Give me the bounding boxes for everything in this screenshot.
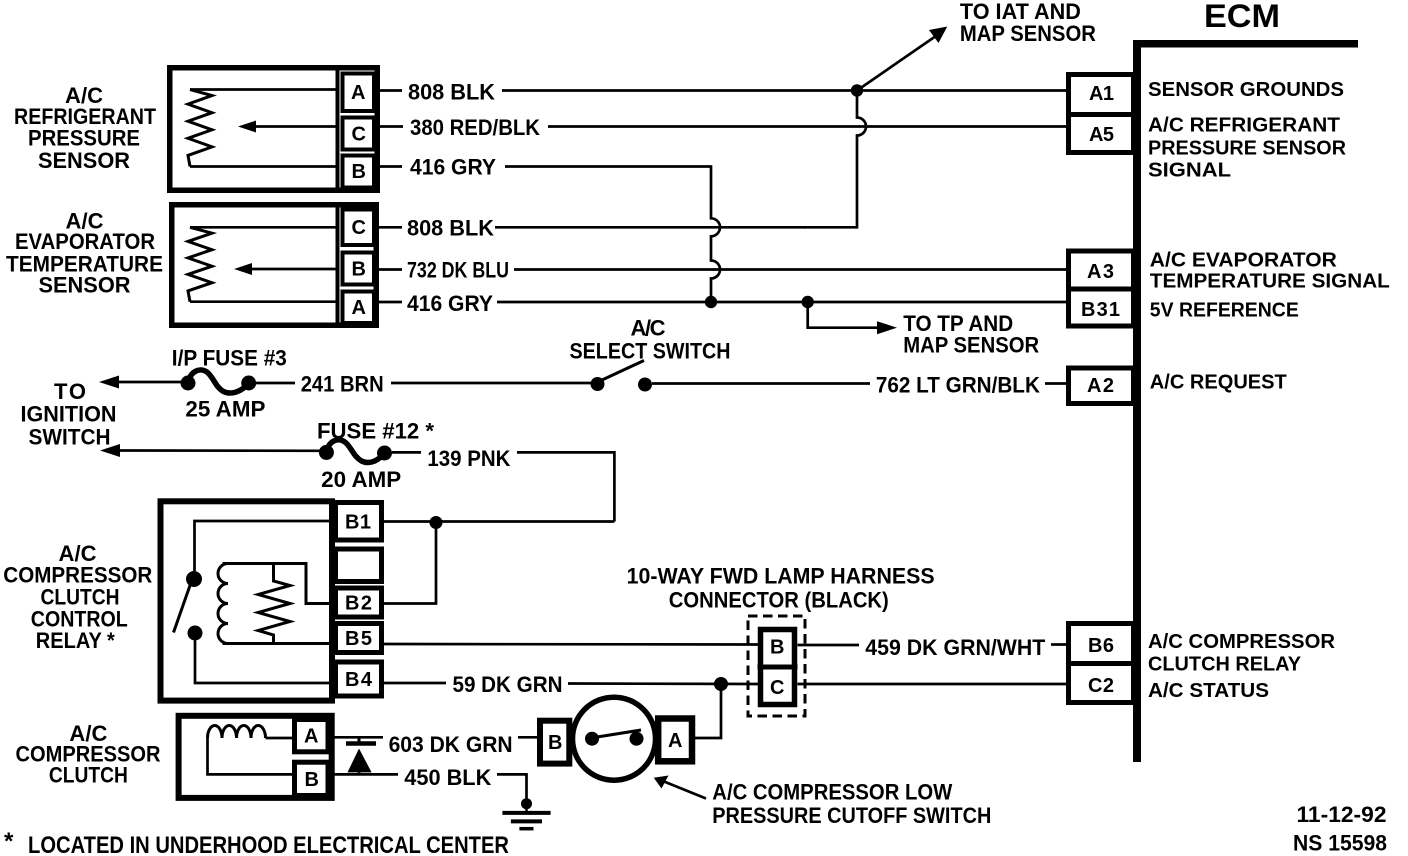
- svg-text:I/P FUSE #3: I/P FUSE #3: [172, 346, 287, 371]
- svg-text:SENSOR: SENSOR: [38, 148, 130, 173]
- ECM label A/C COMPRESSOR CLUTCH RELAY: [1148, 631, 1336, 676]
- svg-text:416 GRY: 416 GRY: [410, 155, 496, 180]
- svg-text:B: B: [770, 637, 784, 659]
- svg-text:NS 15598: NS 15598: [1293, 831, 1387, 856]
- ECM pin block A3/B31: [1066, 251, 1136, 326]
- arrow to ignition switch (139 PNK): [100, 444, 320, 457]
- wire 139 PNK to relay B1: [392, 452, 614, 521]
- pin A3: [1087, 261, 1114, 283]
- svg-text:B: B: [548, 732, 562, 754]
- wire relay B5 to 10-way B: [384, 643, 758, 646]
- A/C select switch: [591, 361, 653, 392]
- svg-text:PRESSURE SENSOR: PRESSURE SENSOR: [1148, 138, 1347, 160]
- wire 416 GRY sensor2 pin A to ECM B31: [376, 301, 1066, 304]
- svg-text:762 LT GRN/BLK: 762 LT GRN/BLK: [876, 373, 1040, 398]
- sensor 2 pin B: [343, 253, 375, 285]
- footnote * located in underhood electrical center: [4, 828, 509, 856]
- wire junction down to B2: [384, 523, 436, 604]
- ECM label SENSOR GROUNDS: [1148, 79, 1344, 101]
- ECM pin block B6/C2: [1066, 624, 1136, 703]
- svg-text:CLUTCH RELAY: CLUTCH RELAY: [1148, 654, 1302, 676]
- pin B31: [1081, 299, 1120, 321]
- A/C evaporator temperature sensor box: [172, 203, 377, 327]
- wire vertical 808 BLK branch with hop over 380 RED/BLK: [804, 91, 866, 228]
- svg-text:SENSOR: SENSOR: [39, 272, 131, 297]
- arrow to pressure switch label: [654, 776, 706, 799]
- wire 732 DK BLU sensor2 pin B to ECM A3: [376, 268, 1066, 271]
- svg-text:603 DK GRN: 603 DK GRN: [389, 732, 513, 757]
- svg-text:A: A: [668, 730, 682, 752]
- svg-text:A/C EVAPORATOR: A/C EVAPORATOR: [1150, 250, 1338, 272]
- svg-text:A2: A2: [1087, 375, 1114, 397]
- relay internal wire B1 to switch: [195, 521, 334, 571]
- label 762 LT GRN/BLK: [876, 373, 1040, 398]
- label 416 GRY: [410, 155, 496, 180]
- ECM pin block A1/A5: [1066, 75, 1136, 153]
- relay switch contact top: [186, 571, 202, 587]
- svg-text:SENSOR GROUNDS: SENSOR GROUNDS: [1148, 79, 1344, 101]
- pin B6: [1088, 635, 1114, 657]
- clutch internal wire coil to A: [266, 737, 295, 740]
- pressure switch contacts: [585, 730, 644, 746]
- svg-text:A: A: [351, 82, 365, 104]
- junction node 5V reference branch: [802, 296, 814, 308]
- label FUSE #12 *: [317, 419, 434, 444]
- wire 808 BLK sensor2 pin C segment: [376, 226, 806, 229]
- svg-text:A/C STATUS: A/C STATUS: [1148, 680, 1269, 702]
- relay switch contact bottom: [188, 626, 203, 641]
- svg-text:A1: A1: [1089, 83, 1114, 105]
- label 20 AMP: [321, 467, 401, 492]
- arrow to IAT and MAP sensor: [857, 27, 947, 91]
- A/C compressor clutch label: [16, 721, 161, 788]
- svg-text:A/C REFRIGERANT: A/C REFRIGERANT: [1148, 115, 1340, 137]
- svg-text:B: B: [305, 769, 319, 791]
- svg-text:A/C REQUEST: A/C REQUEST: [1150, 372, 1287, 394]
- relay switch blade: [174, 584, 191, 633]
- sensor 2 wiper arrow to pin B: [234, 263, 338, 275]
- relay coil bottom bus to B5: [223, 642, 334, 645]
- svg-text:380 RED/BLK: 380 RED/BLK: [410, 115, 540, 140]
- relay coil: [218, 564, 228, 644]
- wire vertical 416 GRY with hops over 808 BLK and 732 DK BLU: [711, 165, 720, 302]
- svg-text:TO: TO: [54, 379, 86, 404]
- label 450 BLK: [404, 765, 491, 790]
- svg-text:C2: C2: [1088, 675, 1114, 697]
- svg-text:B2: B2: [345, 593, 372, 615]
- junction node B1/B2: [430, 516, 443, 529]
- ECM pin box A2: [1069, 368, 1134, 404]
- svg-text:B: B: [352, 161, 366, 183]
- wire A/C status 10-way C to ECM C2: [798, 683, 1067, 686]
- A/C compressor clutch control relay box: [161, 501, 333, 700]
- clutch coil: [208, 725, 266, 738]
- svg-text:MAP SENSOR: MAP SENSOR: [903, 333, 1039, 358]
- svg-text:B4: B4: [345, 669, 373, 691]
- ground: [502, 798, 550, 829]
- svg-text:10-WAY FWD LAMP HARNESS: 10-WAY FWD LAMP HARNESS: [627, 563, 935, 588]
- ECM label A/C REQUEST: [1150, 372, 1287, 394]
- relay pin blank: [336, 549, 382, 582]
- fuse FUSE #12 20 AMP: [319, 440, 392, 463]
- svg-text:11-12-92: 11-12-92: [1297, 802, 1387, 827]
- A/C compressor low pressure cutoff switch circle: [573, 697, 656, 780]
- svg-text:A/C COMPRESSOR: A/C COMPRESSOR: [1148, 631, 1336, 653]
- junction node on 808 BLK: [851, 84, 863, 96]
- svg-text:A/C COMPRESSOR LOW: A/C COMPRESSOR LOW: [712, 780, 952, 805]
- arrow to ignition switch (241 BRN): [99, 376, 182, 389]
- svg-text:B31: B31: [1081, 299, 1120, 321]
- clutch pin B: [295, 762, 329, 795]
- 10-way pin B: [770, 637, 784, 659]
- label 732 DK BLU: [407, 258, 509, 283]
- 10-way connector pin block: [758, 630, 798, 705]
- svg-text:416 GRY: 416 GRY: [407, 291, 493, 316]
- sensor 1 wiper arrow to pin C: [238, 121, 338, 133]
- relay internal resistor: [258, 564, 290, 644]
- ECM label A/C REFRIGERANT PRESSURE SENSOR SIGNAL: [1148, 115, 1347, 182]
- sensor 1 internal wire to pin A: [190, 88, 338, 91]
- wire 459 DK GRN/WHT 10-way B to ECM B6: [798, 643, 1067, 646]
- svg-text:MAP SENSOR: MAP SENSOR: [960, 21, 1096, 46]
- junction node 59 DK GRN / A/C status: [714, 677, 728, 691]
- svg-text:A: A: [352, 297, 366, 319]
- svg-text:A5: A5: [1089, 124, 1114, 146]
- sensor 1 pin B: [343, 156, 375, 188]
- svg-text:C: C: [352, 217, 366, 239]
- relay internal wire switch to B4: [195, 640, 333, 683]
- label 459 DK GRN/WHT: [865, 635, 1046, 660]
- wire 59 DK GRN relay B4 to 10-way C: [384, 683, 758, 684]
- svg-text:CLUTCH: CLUTCH: [49, 763, 128, 788]
- text A/C SELECT SWITCH: [570, 316, 731, 364]
- text 10-WAY FWD LAMP HARNESS CONNECTOR (BLACK): [627, 563, 935, 612]
- branch arrow to TP and MAP sensor: [808, 302, 897, 334]
- label 603 DK GRN: [389, 732, 513, 757]
- label 241 BRN: [301, 372, 384, 397]
- sensor 1 resistive element: [188, 90, 212, 167]
- wire 762 LT GRN/BLK to ECM A2: [652, 382, 1066, 385]
- wire 808 BLK sensor1 pin A to ECM A1: [376, 89, 1066, 92]
- clutch pin A: [295, 720, 329, 752]
- svg-text:139 PNK: 139 PNK: [427, 446, 510, 471]
- svg-text:59 DK GRN: 59 DK GRN: [453, 672, 563, 697]
- svg-text:SWITCH: SWITCH: [29, 424, 111, 449]
- svg-text:A: A: [304, 726, 318, 748]
- label 808 BLK: [408, 80, 495, 105]
- svg-text:C: C: [770, 677, 784, 699]
- pin A5: [1089, 124, 1114, 146]
- pressure switch pin B: [540, 721, 569, 764]
- svg-text:A3: A3: [1087, 261, 1114, 283]
- svg-text:RELAY *: RELAY *: [36, 628, 115, 653]
- wire 450 BLK clutch B to ground: [332, 774, 527, 800]
- wire 380 RED/BLK sensor1 pin C to ECM A5: [376, 125, 1066, 128]
- junction node 416 GRY at vertical: [705, 296, 717, 308]
- fuse I/P FUSE #3 25 AMP: [181, 370, 257, 393]
- label 808 BLK (2): [407, 216, 494, 241]
- relay pin B4: [336, 662, 382, 696]
- svg-text:A/C: A/C: [631, 316, 666, 341]
- A/C refrigerant pressure sensor label: [14, 83, 156, 173]
- sensor 2 resistive element: [188, 227, 212, 301]
- relay coil top bus to B2: [223, 564, 334, 604]
- ECM label 5V REFERENCE: [1150, 299, 1299, 321]
- pressure switch pin A: [658, 719, 692, 762]
- svg-text:B6: B6: [1088, 635, 1114, 657]
- A/C refrigerant pressure sensor box: [170, 66, 378, 192]
- svg-text:241 BRN: 241 BRN: [301, 372, 384, 397]
- label 416 GRY (2): [407, 291, 493, 316]
- date 11-12-92: [1297, 802, 1387, 827]
- sensor 2 pin C: [343, 210, 375, 246]
- wire relay B1 to 139 PNK corner: [384, 520, 614, 523]
- label 59 DK GRN: [453, 672, 563, 697]
- relay pin B2: [336, 588, 382, 617]
- svg-text:TEMPERATURE SIGNAL: TEMPERATURE SIGNAL: [1150, 271, 1390, 293]
- svg-text:20 AMP: 20 AMP: [321, 467, 401, 492]
- ECM label A/C EVAPORATOR TEMPERATURE SIGNAL: [1150, 250, 1390, 293]
- label 25 AMP: [185, 397, 265, 422]
- wire 603 DK GRN clutch A to pressure switch B: [332, 736, 540, 739]
- sensor 2 pin A: [343, 292, 375, 324]
- svg-text:SELECT SWITCH: SELECT SWITCH: [570, 339, 731, 364]
- svg-text:B5: B5: [345, 628, 372, 650]
- svg-text:CONNECTOR (BLACK): CONNECTOR (BLACK): [669, 588, 889, 613]
- sensor 1 pin C: [343, 118, 375, 150]
- A/C compressor clutch control relay label: [3, 541, 152, 653]
- relay pin B1: [336, 503, 382, 541]
- text TO TP AND MAP SENSOR: [903, 311, 1039, 358]
- svg-text:808 BLK: 808 BLK: [407, 216, 494, 241]
- sensor 1 pin A: [343, 74, 375, 112]
- svg-text:PRESSURE CUTOFF SWITCH: PRESSURE CUTOFF SWITCH: [712, 803, 991, 828]
- relay pin B5: [336, 624, 382, 653]
- svg-text:5V REFERENCE: 5V REFERENCE: [1150, 299, 1299, 321]
- diode D1: [346, 737, 376, 774]
- svg-text:IGNITION: IGNITION: [21, 401, 117, 426]
- A/C compressor clutch box: [179, 716, 332, 798]
- svg-text:732 DK BLU: 732 DK BLU: [407, 258, 509, 283]
- svg-text:459 DK GRN/WHT: 459 DK GRN/WHT: [865, 635, 1046, 660]
- ECM label A/C STATUS: [1148, 680, 1269, 702]
- svg-text:ECM: ECM: [1204, 0, 1280, 34]
- text A/C COMPRESSOR LOW PRESSURE CUTOFF SWITCH: [712, 780, 991, 828]
- drawing number NS 15598: [1293, 831, 1387, 856]
- svg-text:LOCATED IN UNDERHOOD ELECTRICA: LOCATED IN UNDERHOOD ELECTRICAL CENTER: [28, 832, 509, 856]
- label 139 PNK: [427, 446, 510, 471]
- pin A1: [1089, 83, 1114, 105]
- 10-way pin C: [770, 677, 784, 699]
- wire pressure switch A to junction: [695, 684, 721, 738]
- pin C2: [1088, 675, 1114, 697]
- ECM title: [1204, 0, 1280, 34]
- svg-text:C: C: [352, 124, 366, 146]
- svg-text:450 BLK: 450 BLK: [404, 765, 491, 790]
- svg-text:*: *: [4, 828, 14, 855]
- svg-text:FUSE #12 *: FUSE #12 *: [317, 419, 434, 444]
- text TO IAT AND MAP SENSOR: [960, 0, 1096, 46]
- svg-text:808 BLK: 808 BLK: [408, 80, 495, 105]
- svg-text:B1: B1: [345, 512, 371, 534]
- sensor 2 internal wire to pin A: [190, 300, 338, 303]
- clutch internal wire coil to B: [208, 738, 295, 774]
- svg-text:SIGNAL: SIGNAL: [1148, 160, 1231, 182]
- label I/P FUSE #3: [172, 346, 287, 371]
- label 380 RED/BLK: [410, 115, 540, 140]
- 10-way fwd lamp harness connector dashed outline: [748, 616, 805, 716]
- wire 241 BRN fuse to select switch: [256, 382, 591, 385]
- A/C evaporator temperature sensor label: [6, 208, 163, 297]
- sensor 2 internal wire to pin C: [190, 226, 338, 229]
- wire 416 GRY sensor1 pin B: [376, 165, 711, 168]
- text TO IGNITION SWITCH: [21, 379, 117, 449]
- svg-text:25 AMP: 25 AMP: [185, 397, 265, 422]
- svg-text:B: B: [352, 259, 366, 281]
- ECM connector bar: [1133, 40, 1358, 762]
- sensor 1 internal wire to pin B: [190, 165, 338, 168]
